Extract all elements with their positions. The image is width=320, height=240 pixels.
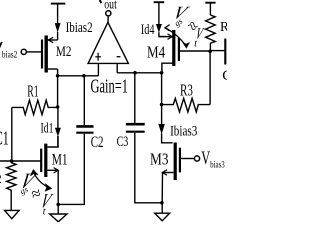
svg-text:Id1: Id1: [41, 121, 54, 137]
svg-text:t: t: [43, 206, 46, 217]
current source Id4 arrow: [156, 24, 166, 37]
svg-text:M4: M4: [147, 42, 165, 61]
VDD T-bar right: [205, 3, 215, 15]
VDD T-bar left: [51, 4, 66, 24]
svg-text:Gain=1: Gain=1: [91, 76, 129, 98]
svg-text:V: V: [201, 148, 210, 169]
resistor R3: [161, 98, 210, 112]
ground below R2: [5, 210, 20, 218]
svg-text:R1: R1: [27, 82, 38, 101]
annotation Vgs~Vt arc at M1: [31, 170, 52, 191]
annotation label Vgs at M4: [169, 3, 192, 23]
node M1 source / C2 junction: [56, 203, 60, 207]
op-amp - input label: [117, 56, 121, 58]
capacitor C4 (cut off at edge): [210, 39, 225, 65]
node M4 gate / R5 / R3 junction: [208, 50, 212, 54]
svg-text:C1: C1: [0, 128, 9, 150]
label Vbias2: [0, 42, 17, 60]
svg-text:bias3: bias3: [210, 160, 225, 170]
resistor R5: [206, 15, 216, 51]
svg-text:Ibias3: Ibias3: [170, 123, 197, 139]
annotation label Vt at M1: [38, 189, 56, 212]
transistor M2 (PMOS): [27, 36, 58, 76]
annotation Vgs~Vt arc at M4: [165, 25, 189, 48]
annotation label Vgs at M1: [15, 169, 40, 194]
svg-text:C3: C3: [117, 134, 129, 150]
svg-text:R3: R3: [180, 80, 193, 99]
svg-text:2: 2: [0, 171, 2, 186]
node rail right (- input to M4 drain): [117, 71, 163, 75]
current source Ibias3 arrow: [158, 105, 172, 143]
node C3 / M3 source junction: [160, 201, 164, 205]
ground below M3: [155, 203, 170, 221]
current Id1 arrow: [55, 107, 61, 147]
svg-text:≈: ≈: [29, 183, 43, 204]
capacitor C3: [126, 73, 162, 203]
terminal out: [106, 11, 111, 16]
label Vbias3: [201, 148, 225, 170]
terminal Vbias3: [194, 156, 199, 161]
svg-text:M3: M3: [150, 150, 169, 169]
transistor M4 (PMOS, mirrored): [159, 30, 210, 73]
node rail left (+ input to M2 drain): [56, 74, 99, 78]
op-amp U1: [88, 16, 128, 76]
wire M1 gate rail: [0, 159, 41, 163]
label out: [100, 0, 117, 11]
resistor R1: [12, 100, 58, 161]
wire R5 node down to R3: [209, 51, 211, 104]
svg-text:out: out: [104, 0, 117, 11]
op-amp + input label: [95, 53, 101, 61]
current source Ibias2 arrow: [55, 23, 61, 40]
capacitor C2: [58, 76, 93, 205]
svg-text:bias2: bias2: [2, 50, 17, 60]
svg-text:C2: C2: [91, 133, 104, 151]
node R3 left junction: [160, 103, 164, 107]
wire M4 drain to Ibias3: [161, 73, 163, 105]
wire M2 drain column: [57, 76, 59, 107]
transistor M3 (NMOS, mirrored): [162, 143, 194, 203]
svg-text:t: t: [194, 39, 197, 50]
svg-text:M1: M1: [52, 151, 68, 168]
transistor M1 (NMOS): [41, 136, 58, 204]
node R1 right junction: [56, 105, 60, 109]
resistor R2: [7, 161, 16, 210]
terminal Vbias2: [21, 49, 26, 54]
VDD T-bar middle: [154, 2, 165, 24]
annotation label Vt at M4: [194, 24, 206, 43]
svg-text:R: R: [220, 19, 227, 34]
svg-text:Id4: Id4: [141, 21, 155, 38]
svg-text:C: C: [222, 68, 227, 84]
svg-text:M2: M2: [56, 44, 72, 60]
ground below M1: [50, 204, 67, 221]
svg-text:Ibias2: Ibias2: [66, 20, 93, 36]
